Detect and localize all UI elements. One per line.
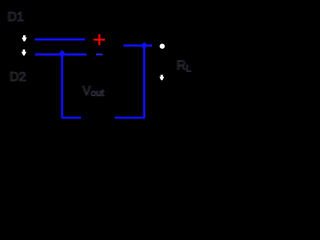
plus polarity mark (93, 34, 105, 45)
wire (123, 44, 152, 47)
wire (35, 53, 87, 56)
svg-text:D2: D2 (10, 69, 27, 84)
label Vout (82, 84, 105, 99)
wire (61, 116, 81, 119)
svg-text:D1: D1 (8, 9, 25, 24)
wire (60, 55, 63, 118)
wire (115, 116, 145, 119)
current arrow A (terminal D1) (22, 35, 27, 41)
wire (35, 38, 85, 41)
node junction J2 (141, 42, 148, 49)
current arrow B (terminal D2) (21, 50, 26, 56)
wire (143, 46, 146, 118)
minus polarity mark (96, 54, 103, 56)
label D1 (7, 9, 25, 24)
label D2 (9, 69, 27, 84)
label RL (176, 58, 192, 75)
probe dot C (160, 44, 165, 49)
node junction J1 (58, 50, 65, 58)
svg-text:Vout: Vout (83, 84, 105, 99)
current arrow D (load branch) (159, 75, 164, 81)
svg-text:RL: RL (177, 58, 192, 75)
